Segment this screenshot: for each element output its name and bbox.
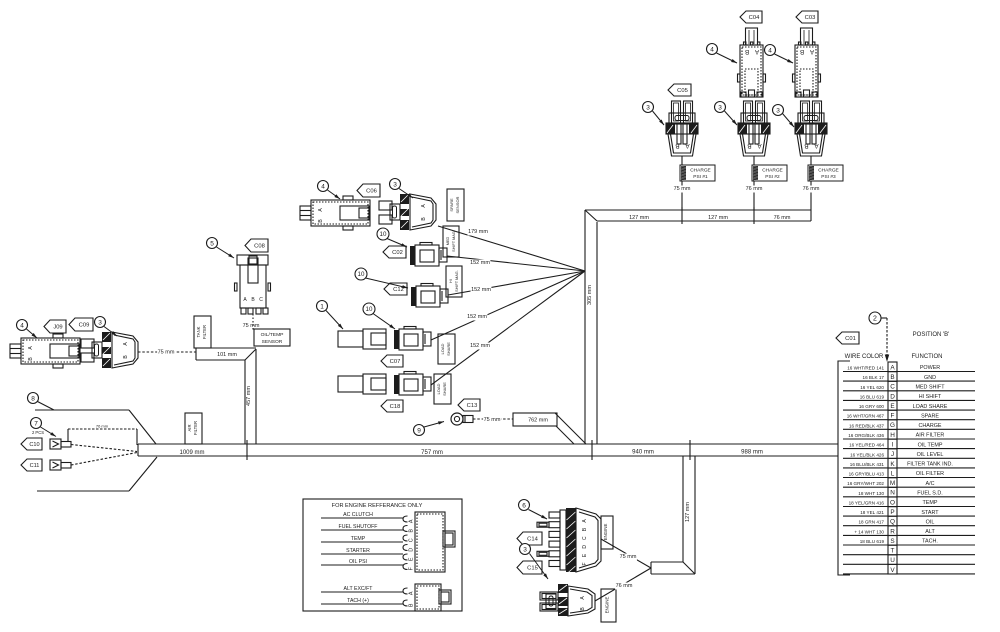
wire: engine AC CLUTCH lead bbox=[321, 512, 403, 518]
svg-text:16 YEL 620: 16 YEL 620 bbox=[860, 385, 884, 390]
label: CHARGE PSI #3 bbox=[802, 165, 843, 193]
svg-text:C07: C07 bbox=[390, 359, 401, 365]
callout 3 (to C09) bbox=[95, 317, 118, 337]
wire: spare sensor lead 179 mm bbox=[438, 226, 585, 271]
pin S row: 18 BLU 619 TACH. bbox=[843, 536, 975, 546]
connector C10 bullet terminal bbox=[50, 439, 71, 449]
tag C11 bbox=[21, 459, 42, 471]
pin F row: 16 WHT/GRN 467 SPARE bbox=[843, 410, 975, 420]
svg-text:C: C bbox=[582, 536, 588, 540]
wire: loom top edge bbox=[35, 410, 156, 444]
svg-text:B: B bbox=[675, 142, 679, 149]
svg-text:C05: C05 bbox=[677, 88, 688, 94]
svg-text:PSI #3: PSI #3 bbox=[821, 174, 836, 180]
wire: C18 lead 152 mm bbox=[431, 271, 585, 385]
svg-text:988 mm: 988 mm bbox=[741, 450, 763, 456]
svg-text:C02: C02 bbox=[392, 250, 403, 256]
svg-text:ENGINE: ENGINE bbox=[603, 524, 608, 541]
svg-text:75 mm: 75 mm bbox=[243, 323, 260, 329]
svg-text:3: 3 bbox=[523, 546, 527, 553]
pin V row: spare bbox=[843, 564, 975, 574]
svg-text:152 mm: 152 mm bbox=[467, 314, 487, 320]
connector C04 (receptacle, item 4) bbox=[738, 28, 766, 97]
connector C11 bullet terminal bbox=[50, 460, 71, 470]
callout 4 (to C06 receptacle) bbox=[318, 181, 341, 200]
svg-text:MED: MED bbox=[446, 237, 450, 246]
tag C13 bbox=[458, 399, 480, 411]
svg-text:18 YEL 421: 18 YEL 421 bbox=[860, 510, 884, 515]
svg-text:16 BLU/BLK 431: 16 BLU/BLK 431 bbox=[850, 462, 885, 467]
tag C08 bbox=[245, 239, 268, 252]
svg-text:TANK: TANK bbox=[196, 326, 201, 337]
svg-text:16 ORG/BLK 436: 16 ORG/BLK 436 bbox=[848, 433, 884, 438]
svg-text:A: A bbox=[814, 142, 819, 149]
svg-text:J: J bbox=[891, 451, 894, 458]
svg-text:OIL LEVEL: OIL LEVEL bbox=[917, 452, 944, 458]
svg-text:10: 10 bbox=[366, 306, 373, 313]
connector C13 ring terminal bbox=[451, 413, 473, 425]
callout 9 (to ring terminal C13) bbox=[414, 421, 445, 435]
svg-text:C01: C01 bbox=[845, 336, 856, 342]
svg-text:F: F bbox=[582, 562, 588, 565]
svg-text:940 mm: 940 mm bbox=[632, 450, 654, 456]
svg-text:101 mm: 101 mm bbox=[217, 352, 237, 358]
svg-text:V: V bbox=[890, 567, 895, 574]
svg-text:B: B bbox=[800, 48, 804, 55]
wire: vertical harness trunk 305 mm bbox=[585, 210, 597, 444]
engine reference detail box bbox=[303, 499, 462, 611]
pin C row: 16 YEL 620 MED SHIFT bbox=[843, 381, 975, 391]
label: TANK FILTER bbox=[194, 316, 211, 348]
svg-text:A: A bbox=[757, 142, 762, 149]
svg-text:POSITION 'B': POSITION 'B' bbox=[913, 332, 950, 338]
svg-text:CHARGE: CHARGE bbox=[762, 168, 783, 174]
callout 10 (to C02) bbox=[377, 228, 407, 247]
svg-text:B: B bbox=[747, 142, 751, 149]
svg-text:E: E bbox=[890, 403, 894, 410]
svg-text:CHARGE: CHARGE bbox=[818, 168, 839, 174]
svg-text:75 mm: 75 mm bbox=[674, 186, 691, 192]
svg-text:OIL/TEMP: OIL/TEMP bbox=[261, 332, 284, 338]
svg-text:A: A bbox=[408, 519, 414, 523]
svg-text:4: 4 bbox=[710, 46, 714, 53]
callout 8 (loom) bbox=[28, 393, 55, 411]
pin D row: 16 BLU 619 HI SHIFT bbox=[843, 391, 975, 401]
connector C09 (plug, item 3) bbox=[81, 332, 138, 368]
svg-text:R: R bbox=[890, 528, 895, 535]
wire: loom bottom edge bbox=[37, 457, 157, 491]
tag C05 bbox=[668, 84, 691, 96]
callout 6 (to C14) bbox=[519, 500, 548, 520]
connector C06 assembly (spare sensor, items 4+3) bbox=[300, 196, 370, 230]
pin Q row: 18 GRN 417 OIL bbox=[843, 516, 975, 526]
svg-text:S: S bbox=[890, 538, 894, 545]
svg-text:SHARE: SHARE bbox=[442, 382, 447, 396]
label: HI SHIFT MAG bbox=[446, 266, 462, 297]
svg-text:L: L bbox=[891, 470, 895, 477]
wire: engine OIL PSI lead bbox=[321, 559, 403, 565]
pin M row: 16 GRY/WHT 202 A/C bbox=[843, 478, 975, 488]
svg-text:3: 3 bbox=[776, 107, 780, 114]
callout 3 (charge plug 3) bbox=[773, 105, 795, 128]
callout 3 (charge plug 2) bbox=[715, 102, 738, 126]
label: CHARGE PSI #2 bbox=[745, 165, 787, 193]
pin K row: 16 BLU/BLK 431 FILTER TANK IND. bbox=[843, 458, 975, 468]
wire: engine ALT EXC/FT lead bbox=[321, 586, 403, 592]
svg-text:757 mm: 757 mm bbox=[421, 450, 443, 456]
svg-text:GND: GND bbox=[924, 375, 936, 381]
svg-text:FILTER TANK IND.: FILTER TANK IND. bbox=[907, 462, 953, 468]
wire: engine FUEL SHUTOFF lead bbox=[321, 524, 403, 530]
svg-text:305 mm: 305 mm bbox=[587, 285, 593, 305]
svg-text:I: I bbox=[892, 442, 894, 449]
svg-text:PSI #2: PSI #2 bbox=[765, 174, 780, 180]
connector C12 (hi shift, item 10) bbox=[411, 284, 448, 308]
wire: engine drop trunk 127 mm bbox=[651, 456, 695, 574]
svg-text:75 mm: 75 mm bbox=[620, 554, 637, 560]
svg-text:G: G bbox=[890, 422, 895, 429]
svg-text:AC CLUTCH: AC CLUTCH bbox=[343, 512, 373, 518]
svg-text:B: B bbox=[408, 603, 414, 607]
svg-text:TEMP: TEMP bbox=[923, 500, 938, 506]
callout 10 (to C12) bbox=[355, 268, 408, 288]
svg-text:K: K bbox=[890, 461, 895, 468]
svg-text:76 mm: 76 mm bbox=[774, 215, 791, 221]
tag C10 bbox=[21, 438, 42, 450]
svg-text:C09: C09 bbox=[79, 323, 90, 329]
svg-text:FILTER: FILTER bbox=[193, 421, 198, 435]
tag C18 bbox=[381, 400, 403, 412]
svg-text:Q: Q bbox=[890, 519, 895, 526]
svg-text:B: B bbox=[890, 374, 894, 381]
svg-text:+ 14 WHT 130: + 14 WHT 130 bbox=[854, 529, 884, 534]
svg-text:O: O bbox=[890, 499, 895, 506]
svg-text:C13: C13 bbox=[467, 403, 478, 409]
callout 4 (to C04) bbox=[707, 44, 738, 64]
svg-text:OIL FILTER: OIL FILTER bbox=[916, 471, 944, 477]
svg-text:START: START bbox=[921, 510, 939, 516]
svg-text:457 mm: 457 mm bbox=[246, 386, 252, 406]
svg-text:POWER: POWER bbox=[920, 365, 940, 371]
wire: charge psi #2 drop 76 mm bbox=[753, 156, 755, 210]
svg-text:C15: C15 bbox=[527, 566, 538, 572]
svg-text:16 YEL/BLK 426: 16 YEL/BLK 426 bbox=[850, 452, 884, 457]
connector: charge psi plug #3 (item 3) bbox=[795, 101, 827, 156]
svg-text:A: A bbox=[408, 591, 414, 595]
svg-text:3: 3 bbox=[98, 319, 102, 326]
tag C01 bbox=[836, 332, 859, 344]
wire: charge psi #1 drop 75 mm bbox=[681, 156, 683, 210]
svg-text:SHIFT MAG.: SHIFT MAG. bbox=[455, 270, 459, 292]
svg-text:F: F bbox=[891, 413, 895, 420]
svg-text:3: 3 bbox=[646, 104, 650, 111]
connector C01 position B pinout table bbox=[838, 332, 975, 575]
wire: C09 to tank filter 75 mm bbox=[138, 349, 196, 356]
connector C14 engine 6-pin plug bbox=[537, 508, 601, 574]
svg-text:SENSOR: SENSOR bbox=[455, 196, 460, 213]
svg-text:ALT EXC/FT: ALT EXC/FT bbox=[344, 586, 374, 592]
svg-text:D: D bbox=[890, 393, 895, 400]
wire: top harness trunk 127/127/76 mm bbox=[585, 207, 811, 224]
svg-text:7: 7 bbox=[34, 420, 38, 427]
svg-text:SHIFT MAG.: SHIFT MAG. bbox=[452, 230, 456, 252]
svg-text:SHARE: SHARE bbox=[446, 342, 451, 356]
svg-text:76 mm: 76 mm bbox=[616, 583, 633, 589]
engine 2-pin connector (reference) bbox=[403, 584, 451, 611]
tag C15 bbox=[517, 561, 542, 574]
svg-text:C04: C04 bbox=[749, 15, 760, 21]
svg-text:ENGINE: ENGINE bbox=[605, 597, 610, 614]
svg-text:OIL PSI: OIL PSI bbox=[349, 559, 367, 565]
pin P row: 18 YEL 421 START bbox=[843, 507, 975, 517]
wire: C10 to trunk bbox=[71, 445, 137, 452]
svg-text:6: 6 bbox=[522, 502, 526, 509]
label: SPARE SENSOR bbox=[447, 189, 464, 221]
svg-text:ALT: ALT bbox=[925, 529, 935, 535]
svg-text:A: A bbox=[685, 142, 690, 149]
label: LOAD SHARE (C07) bbox=[438, 334, 455, 364]
pin E row: 16 GRY 600 LOAD SHARE bbox=[843, 401, 975, 411]
pin U row: spare bbox=[843, 555, 975, 565]
svg-text:127 mm: 127 mm bbox=[685, 502, 691, 522]
wire: charge psi #3 drop 76 mm bbox=[810, 156, 812, 210]
wire: C15 lead 76 mm bbox=[595, 568, 651, 601]
svg-text:16 YEL/RED 464: 16 YEL/RED 464 bbox=[849, 443, 884, 448]
callout 4 (to J09) bbox=[17, 320, 38, 339]
svg-text:16 RED/BLK 437: 16 RED/BLK 437 bbox=[849, 423, 884, 428]
label sleeve: 762 mm bbox=[513, 413, 557, 426]
label: AIR FILTER bbox=[185, 413, 202, 444]
svg-text:N: N bbox=[890, 490, 895, 497]
wire: engine TACH (+) lead bbox=[321, 598, 403, 604]
wire: main bottom harness trunk 1009/757/940/988 mm bbox=[138, 440, 838, 460]
svg-text:3: 3 bbox=[718, 104, 722, 111]
tag C03 bbox=[796, 11, 818, 23]
svg-text:FUEL S.D.: FUEL S.D. bbox=[917, 491, 943, 497]
svg-text:FUEL SHUTOFF: FUEL SHUTOFF bbox=[339, 524, 378, 530]
svg-text:2 PCS: 2 PCS bbox=[32, 430, 44, 435]
svg-text:C11: C11 bbox=[30, 463, 40, 469]
svg-text:T: T bbox=[891, 548, 895, 555]
svg-text:C18: C18 bbox=[390, 404, 401, 410]
svg-text:18 YEL/GRN 416: 18 YEL/GRN 416 bbox=[849, 501, 885, 506]
callout 7 (2 pcs bullet terminals) bbox=[31, 418, 57, 437]
svg-text:10: 10 bbox=[380, 231, 387, 238]
svg-text:16 BLU 619: 16 BLU 619 bbox=[860, 394, 885, 399]
connector C07 assembly (load share, items 1+10) bbox=[338, 329, 386, 349]
svg-text:3: 3 bbox=[393, 181, 397, 188]
callout 10 (to C07 plug) bbox=[363, 303, 395, 329]
pin I row: 16 YEL/RED 464 OIL TEMP bbox=[843, 439, 975, 449]
svg-text:16 GRY/WHT 202: 16 GRY/WHT 202 bbox=[847, 481, 884, 486]
svg-text:LOAD: LOAD bbox=[440, 343, 445, 354]
connector C03 (receptacle, item 4) bbox=[793, 28, 821, 97]
wire: C07 lead 152 mm bbox=[431, 271, 585, 340]
svg-text:16 WHT/RED 141: 16 WHT/RED 141 bbox=[847, 366, 884, 371]
svg-text:9: 9 bbox=[417, 427, 421, 434]
svg-text:P: P bbox=[890, 509, 894, 516]
tag C14 bbox=[517, 532, 542, 545]
svg-text:16 BLK 17: 16 BLK 17 bbox=[863, 375, 885, 380]
svg-text:STARTER: STARTER bbox=[346, 548, 370, 554]
wire: riser 457 mm with 101 mm elbow bbox=[196, 348, 256, 444]
svg-text:75 mm: 75 mm bbox=[484, 417, 501, 423]
svg-text:4: 4 bbox=[20, 322, 24, 329]
svg-text:A: A bbox=[890, 364, 895, 371]
svg-text:18 WHT 130: 18 WHT 130 bbox=[858, 491, 884, 496]
svg-text:WIRE COLOR: WIRE COLOR bbox=[845, 354, 884, 360]
wire: C02 lead 152 mm bbox=[447, 256, 585, 271]
callout 3 (to C06 plug) bbox=[390, 179, 414, 199]
wire: ring terminal lead 75 mm bbox=[473, 417, 513, 424]
pin G row: 16 RED/BLK 437 CHARGE bbox=[843, 420, 975, 430]
svg-text:16 GRY 600: 16 GRY 600 bbox=[859, 404, 885, 409]
svg-text:1: 1 bbox=[320, 303, 324, 310]
engine 6-pin connector (reference) bbox=[403, 512, 455, 572]
svg-text:D: D bbox=[582, 545, 588, 549]
svg-text:OIL TEMP: OIL TEMP bbox=[918, 442, 943, 448]
svg-text:5: 5 bbox=[210, 240, 214, 247]
connector C08 (oil/temp sensor, item 5) bbox=[235, 255, 271, 314]
label: OIL/TEMP SENSOR bbox=[254, 329, 290, 346]
svg-text:OIL: OIL bbox=[926, 519, 935, 525]
pin A row: 16 WHT/RED 141 POWER bbox=[843, 362, 975, 372]
pin H row: 16 ORG/BLK 436 AIR FILTER bbox=[843, 430, 975, 440]
svg-text:18 BLU 619: 18 BLU 619 bbox=[860, 539, 885, 544]
svg-text:D: D bbox=[408, 548, 414, 552]
svg-text:U: U bbox=[890, 557, 895, 564]
svg-text:TEMP: TEMP bbox=[351, 536, 366, 542]
svg-text:LOAD: LOAD bbox=[436, 383, 441, 394]
svg-text:HI SHIFT: HI SHIFT bbox=[919, 394, 942, 400]
svg-text:AIR FILTER: AIR FILTER bbox=[916, 433, 945, 439]
label: ENGINE (C14) bbox=[601, 516, 613, 549]
label: ENGINE (C15) bbox=[601, 589, 616, 622]
callout 1 (to C07 housing) bbox=[317, 301, 344, 330]
svg-text:TACH (+): TACH (+) bbox=[347, 598, 369, 604]
svg-text:SPARE: SPARE bbox=[921, 413, 939, 419]
svg-text:B: B bbox=[804, 142, 808, 149]
tag C06 bbox=[357, 184, 380, 197]
svg-text:179 mm: 179 mm bbox=[468, 229, 488, 235]
svg-text:127 mm: 127 mm bbox=[708, 215, 728, 221]
svg-text:B: B bbox=[408, 529, 414, 533]
tag C07 bbox=[381, 355, 403, 367]
wire: C12 lead 152 mm bbox=[448, 271, 585, 295]
svg-text:152 mm: 152 mm bbox=[470, 260, 490, 266]
pin J row: 16 YEL/BLK 426 OIL LEVEL bbox=[843, 449, 975, 459]
tag C09 bbox=[69, 318, 93, 331]
svg-text:152 mm: 152 mm bbox=[471, 287, 491, 293]
wire: engine TEMP lead bbox=[321, 536, 403, 542]
dimension: bullet leads 76 mm bbox=[68, 424, 137, 446]
pin N row: 18 WHT 130 FUEL S.D. bbox=[843, 487, 975, 497]
connector C18 assembly (load share, items 1+10) bbox=[338, 374, 386, 394]
svg-text:CHARGE: CHARGE bbox=[918, 423, 941, 429]
wire: C14 lead 75 mm bbox=[601, 539, 651, 568]
callout 5 (to C08) bbox=[207, 238, 235, 259]
svg-text:LOAD SHARE: LOAD SHARE bbox=[913, 404, 948, 410]
svg-text:C03: C03 bbox=[805, 15, 816, 21]
connector: charge psi plug #2 (item 3) bbox=[738, 101, 770, 156]
svg-text:1009 mm: 1009 mm bbox=[179, 450, 204, 456]
connector: charge psi plug #1 (item 3) bbox=[666, 101, 698, 156]
svg-text:10: 10 bbox=[358, 271, 365, 278]
svg-text:PSI #1: PSI #1 bbox=[693, 174, 708, 180]
callout 2 (table leader) bbox=[869, 312, 889, 360]
wire: engine STARTER lead bbox=[321, 548, 403, 554]
svg-text:H: H bbox=[890, 432, 895, 439]
label: LOAD SHARE (C18) bbox=[434, 374, 451, 404]
pin B row: 16 BLK 17 GND bbox=[843, 372, 975, 382]
svg-text:76 mm: 76 mm bbox=[746, 186, 763, 192]
connector C15 engine 2-pin plug bbox=[540, 584, 595, 616]
svg-text:SENSOR: SENSOR bbox=[262, 339, 283, 345]
pin R row: + 14 WHT 130 ALT bbox=[843, 526, 975, 536]
svg-text:18 GRN 417: 18 GRN 417 bbox=[858, 520, 884, 525]
tag C12 bbox=[384, 283, 407, 295]
svg-text:127 mm: 127 mm bbox=[629, 215, 649, 221]
wire: C08 to oil/temp sensor 75 mm bbox=[243, 314, 260, 330]
svg-text:8: 8 bbox=[31, 395, 35, 402]
wire: C11 to trunk bbox=[71, 453, 137, 466]
svg-text:16 WHT/GRN 467: 16 WHT/GRN 467 bbox=[847, 414, 885, 419]
svg-text:4: 4 bbox=[768, 47, 772, 54]
wire: sleeve to trunk diagonal bbox=[555, 413, 586, 444]
svg-text:C: C bbox=[890, 384, 895, 391]
tag C04 bbox=[740, 11, 762, 23]
svg-text:A/C: A/C bbox=[926, 481, 935, 487]
svg-text:4: 4 bbox=[321, 183, 325, 190]
svg-text:MED SHIFT: MED SHIFT bbox=[915, 385, 945, 391]
svg-text:C06: C06 bbox=[366, 189, 377, 195]
tag J09 bbox=[44, 320, 66, 333]
connector J09 (receptacle, item 4) bbox=[10, 334, 80, 368]
svg-text:152 mm: 152 mm bbox=[470, 343, 490, 349]
label: CHARGE PSI #1 bbox=[673, 165, 715, 193]
svg-text:C: C bbox=[259, 297, 263, 303]
pin T row: spare bbox=[843, 545, 975, 555]
svg-text:FOR ENGINE REFFERANCE ONLY: FOR ENGINE REFFERANCE ONLY bbox=[332, 503, 423, 509]
svg-text:HI: HI bbox=[449, 279, 453, 283]
svg-text:C10: C10 bbox=[29, 442, 39, 448]
svg-text:SPARE: SPARE bbox=[449, 198, 454, 212]
svg-text:C14: C14 bbox=[527, 537, 538, 543]
pin L row: 16 GRY/BLU 413 OIL FILTER bbox=[843, 468, 975, 478]
svg-text:16 GRY/BLU 413: 16 GRY/BLU 413 bbox=[849, 472, 885, 477]
svg-text:E: E bbox=[408, 557, 414, 561]
svg-text:AIR: AIR bbox=[187, 425, 192, 432]
callout 3 (charge plug 1) bbox=[643, 102, 665, 126]
svg-text:M: M bbox=[890, 480, 895, 487]
svg-text:76 mm: 76 mm bbox=[803, 186, 820, 192]
svg-text:2: 2 bbox=[873, 316, 877, 323]
connector C02 (med shift, item 10) bbox=[410, 243, 447, 267]
svg-text:C: C bbox=[408, 538, 414, 542]
svg-text:762 mm: 762 mm bbox=[528, 418, 548, 424]
svg-text:FUNCTION: FUNCTION bbox=[912, 354, 943, 360]
svg-text:TACH.: TACH. bbox=[922, 539, 938, 545]
svg-text:FILTER: FILTER bbox=[202, 325, 207, 339]
svg-text:75 mm: 75 mm bbox=[158, 350, 175, 356]
callout 4 (to C03) bbox=[765, 45, 794, 64]
pin O row: 18 YEL/GRN 416 TEMP bbox=[843, 497, 975, 507]
svg-text:B: B bbox=[745, 48, 749, 55]
svg-text:C08: C08 bbox=[254, 244, 265, 250]
label: MED SHIFT MAG bbox=[443, 226, 459, 257]
svg-text:76 mm: 76 mm bbox=[96, 424, 109, 429]
callout 3 (to C15) bbox=[520, 544, 549, 580]
